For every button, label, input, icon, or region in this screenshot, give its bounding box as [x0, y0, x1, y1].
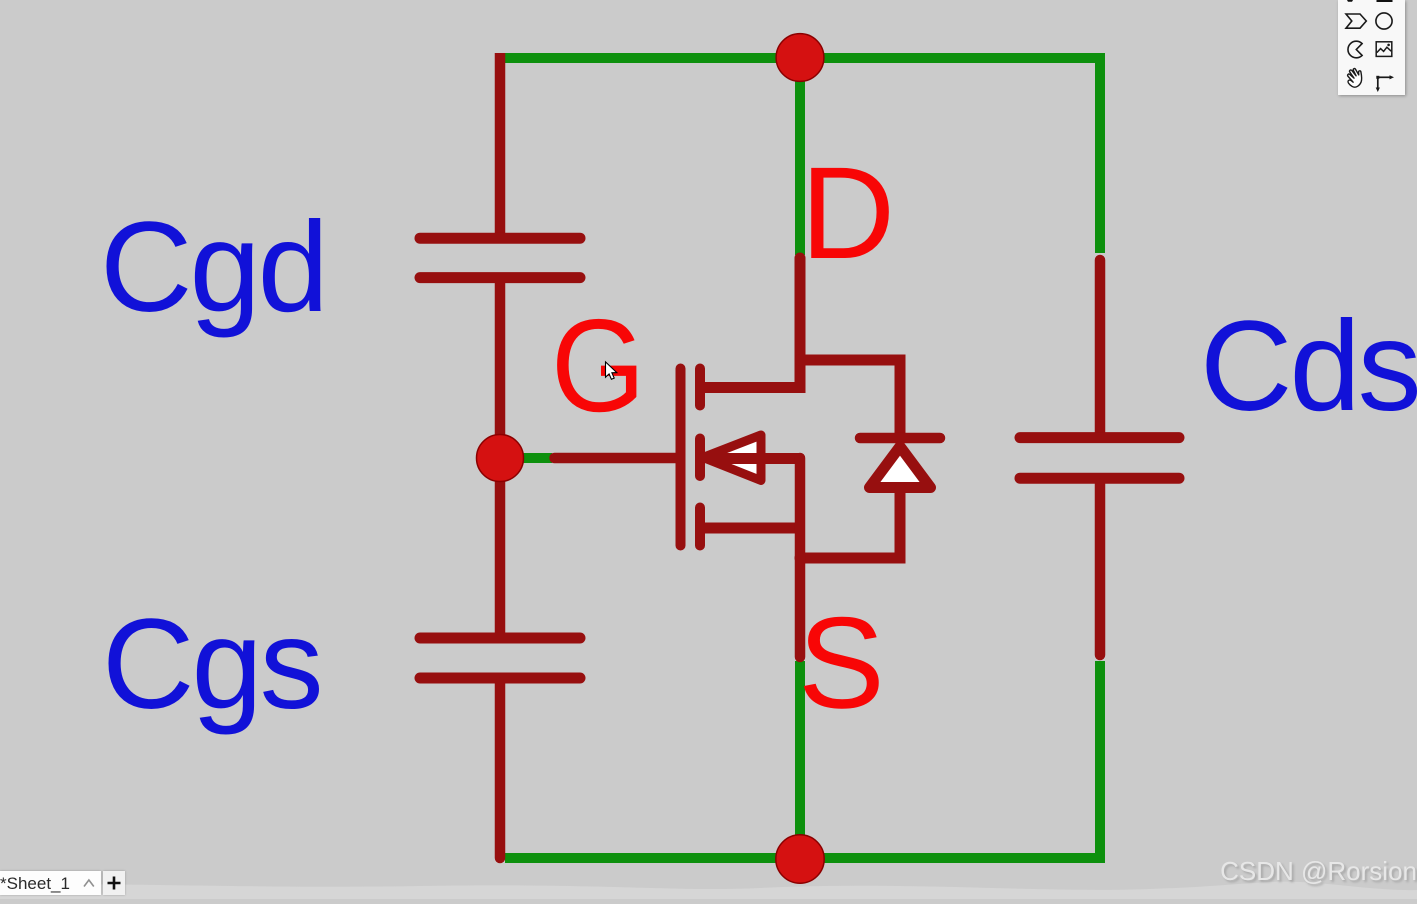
transistor Q1 channel middle segment [695, 439, 705, 477]
toolbar arc icon [1348, 41, 1362, 58]
toolbar panel [1338, 0, 1405, 95]
wire S net stub (green) [795, 661, 805, 858]
toolbar circle icon [1376, 13, 1392, 29]
sheet add tab button [103, 871, 125, 895]
diode D1 cathode bar [860, 433, 940, 444]
node junction bottom [776, 835, 824, 883]
svg-text:Cgd: Cgd [100, 196, 326, 339]
node junction top [776, 34, 824, 82]
node junction gate [477, 435, 524, 482]
svg-text:D: D [801, 139, 896, 286]
toolbar chevron icon [1346, 14, 1366, 28]
transistor Q1 gate pin [555, 453, 679, 464]
wire Cgd bottom lead [495, 283, 506, 436]
transistor Q1 source pin [795, 458, 806, 657]
svg-text:G: G [551, 291, 645, 439]
capacitor Cds [1020, 438, 1179, 479]
wire net top rail (green) [505, 58, 1100, 253]
capacitor Cgs [420, 638, 580, 678]
wire source bar [708, 453, 800, 464]
transistor Q1 channel bottom segment [695, 508, 705, 546]
transistor Q1 gate bar [676, 369, 686, 546]
wire D pin stub (green) [795, 58, 805, 255]
wire drain to body diode [800, 360, 900, 433]
wire gate net stub (green) [500, 453, 552, 463]
sheet tab bar [0, 871, 101, 895]
bottom scrollbar band [0, 882, 1417, 899]
wire bottom channel to source [700, 523, 800, 534]
transistor Q1 body arrow [703, 435, 761, 481]
diode D1 triangle [870, 447, 931, 488]
toolbar image icon [1376, 42, 1392, 57]
capacitor Cgd [420, 238, 580, 277]
wire Cgd top lead [495, 53, 506, 233]
wire bottom rail (green) [505, 661, 1100, 858]
wire Cds bottom lead [1095, 484, 1106, 655]
toolbar hand icon [1345, 67, 1364, 88]
toolbar cut icon row1 col2 [1377, 0, 1393, 2]
toolbar cut icon row1 col1 [1347, 0, 1353, 2]
mouse cursor [606, 362, 617, 379]
svg-text:Cds: Cds [1200, 295, 1417, 438]
transistor Q1 drain pin [702, 258, 800, 388]
transistor Q1 channel top segment [695, 369, 705, 406]
svg-text:Cgs: Cgs [102, 593, 321, 736]
watermark [1220, 856, 1417, 887]
wire Cgs top lead [495, 480, 506, 633]
toolbar axis icon [1378, 77, 1390, 87]
svg-text:S: S [798, 590, 885, 736]
wire Cds top lead [1095, 260, 1106, 433]
wire body diode anode to source [800, 489, 900, 558]
wire Cgs bottom lead [495, 683, 506, 858]
